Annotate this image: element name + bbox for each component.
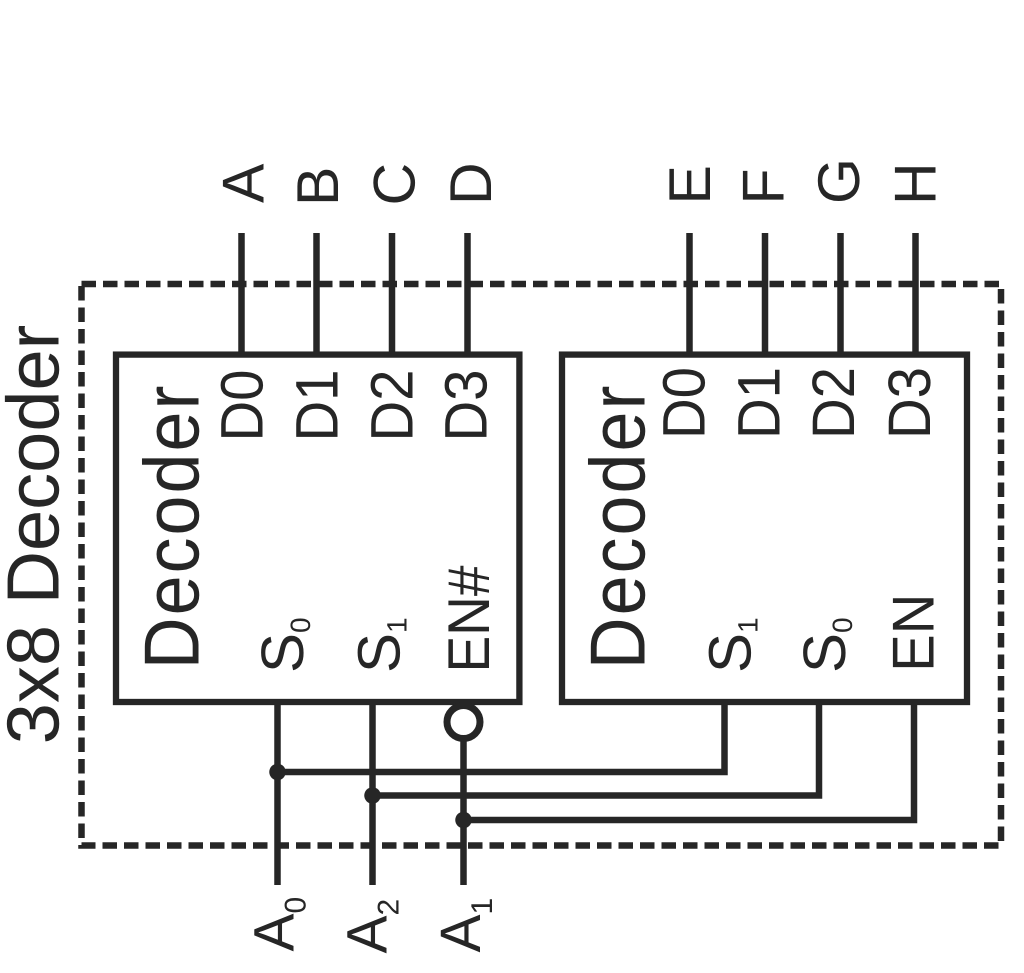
outer dashed boundary box (3x8 decoder): [82, 284, 1002, 846]
junction node A0: [269, 764, 286, 781]
wire A0 net to U2 S1: [278, 702, 725, 772]
svg-text:H: H: [883, 162, 949, 205]
decoder U2 box: [562, 355, 967, 702]
wire U1 output D3 to D: [464, 233, 471, 355]
junction node A2: [364, 787, 381, 804]
wire U2 output D0 to E: [686, 233, 693, 355]
svg-text:G: G: [806, 158, 872, 204]
wire U1 output D1 to B: [313, 233, 320, 355]
junction node A1: [455, 812, 472, 829]
wire A1 net to U2 EN: [464, 702, 915, 820]
svg-text:D0: D0: [651, 367, 718, 439]
wire A2 net to U2 S0: [373, 702, 820, 796]
svg-text:E: E: [657, 165, 723, 204]
svg-text:F: F: [731, 168, 797, 204]
svg-text:D1: D1: [284, 370, 351, 442]
svg-text:D3: D3: [876, 367, 943, 439]
wire U2 output D3 to H: [912, 233, 919, 355]
wire U1 output D0 to A: [238, 233, 245, 355]
wire U2 output D2 to G: [837, 233, 844, 355]
svg-text:D1: D1: [726, 367, 793, 439]
svg-text:A: A: [211, 163, 277, 203]
svg-text:3x8 Decoder: 3x8 Decoder: [0, 325, 75, 745]
wire input A2 vertical (U1 S1): [369, 702, 376, 885]
svg-text:D3: D3: [433, 370, 500, 442]
svg-text:EN: EN: [881, 594, 947, 672]
svg-text:D2: D2: [359, 370, 426, 442]
svg-text:C: C: [362, 163, 428, 206]
svg-text:EN#: EN#: [436, 565, 502, 672]
wire input A1 vertical (U1 EN# bubble): [460, 739, 467, 886]
svg-text:D2: D2: [800, 367, 867, 439]
wire input A0 vertical (U1 S0): [274, 702, 281, 885]
svg-text:B: B: [285, 167, 351, 206]
wire U1 output D2 to C: [389, 233, 396, 355]
svg-text:D: D: [438, 162, 504, 205]
wire U2 output D1 to F: [762, 233, 769, 355]
svg-text:D0: D0: [209, 370, 276, 442]
EN# inverter bubble on U1: [447, 706, 480, 739]
svg-text:Decoder: Decoder: [128, 384, 216, 670]
decoder U1 box: [116, 355, 519, 702]
svg-text:Decoder: Decoder: [574, 384, 662, 670]
